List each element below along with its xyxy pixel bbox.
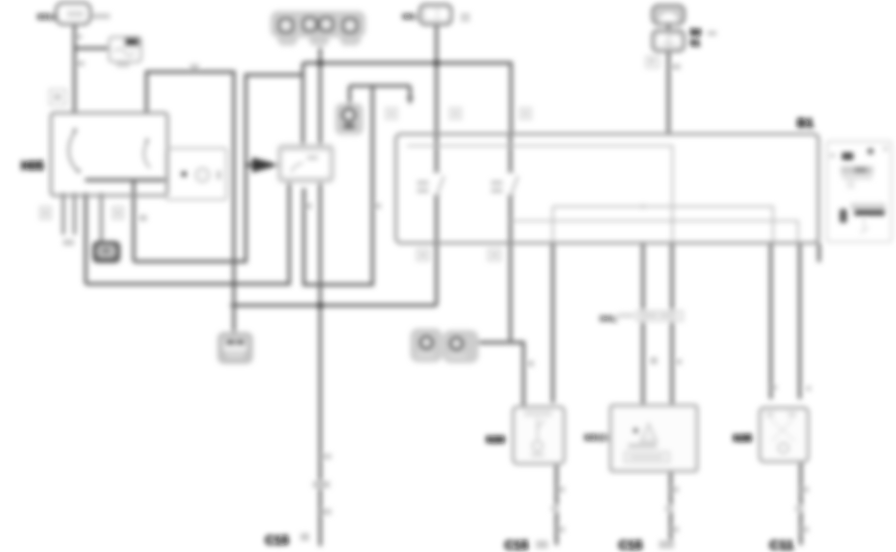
svg-text:B1: B1 bbox=[797, 116, 814, 131]
svg-text:C15: C15 bbox=[505, 538, 529, 552]
svg-text:C15: C15 bbox=[619, 538, 643, 552]
svg-text:D011: D011 bbox=[600, 314, 619, 324]
svg-text:B0: B0 bbox=[690, 28, 702, 38]
svg-text:01: 01 bbox=[690, 38, 700, 48]
svg-text:M010: M010 bbox=[37, 12, 58, 22]
svg-text:N30: N30 bbox=[486, 434, 505, 446]
svg-text:C11: C11 bbox=[770, 538, 795, 552]
svg-text:H05: H05 bbox=[21, 159, 44, 173]
svg-text:N35: N35 bbox=[733, 433, 752, 445]
svg-text:M015: M015 bbox=[584, 432, 609, 444]
svg-text:M01: M01 bbox=[402, 12, 418, 22]
svg-text:C15: C15 bbox=[265, 533, 289, 548]
